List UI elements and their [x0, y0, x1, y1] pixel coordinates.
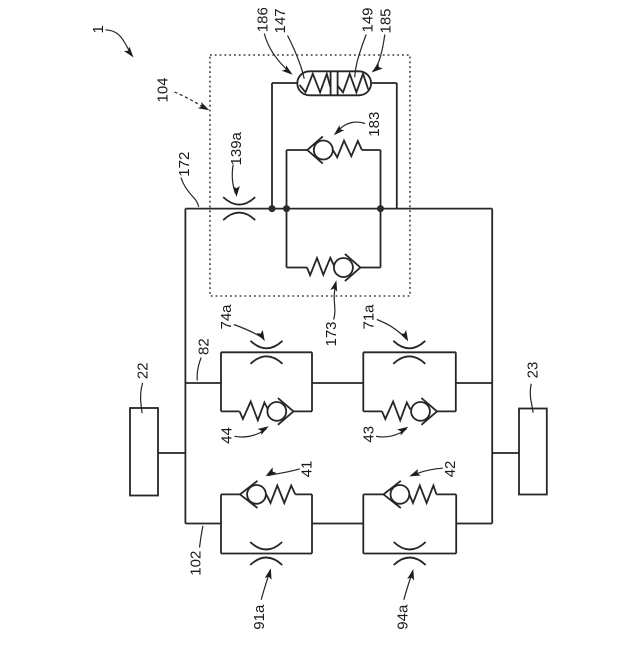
- leader for 42: [412, 468, 443, 475]
- restrictor 71a: [393, 341, 425, 364]
- accumulator piston divider: [331, 72, 338, 96]
- wire: main line 172: [185, 208, 492, 210]
- cylinder 22: [130, 408, 158, 496]
- junction node middle: [283, 205, 290, 212]
- leader for 183: [336, 122, 366, 133]
- leader for 43: [376, 429, 407, 437]
- arrowhead for 186: [282, 65, 295, 77]
- valve block box 42/94a: [363, 494, 456, 553]
- arrowhead for 1: [124, 47, 136, 60]
- check valve 183: [314, 141, 333, 160]
- junction node right: [377, 205, 384, 212]
- svg-text:22: 22: [134, 362, 151, 379]
- leader for 22: [141, 383, 143, 413]
- svg-text:42: 42: [442, 461, 459, 478]
- wire: accumulator branch right: [371, 83, 397, 209]
- wire: cylinder 23 connection: [492, 452, 519, 454]
- spring 149: [338, 74, 369, 93]
- wire: cylinder 22 connection: [158, 452, 185, 454]
- arrowheads: [124, 47, 421, 581]
- arrowhead for 139a: [233, 186, 240, 197]
- check valve 44: [267, 402, 286, 421]
- wire: row-2 middle: [312, 382, 364, 384]
- spring 147: [300, 74, 331, 93]
- arrowhead for 94a: [407, 568, 416, 580]
- arrowhead for 173: [330, 279, 339, 291]
- leader for 41: [268, 469, 300, 476]
- valve block box 71a/43: [363, 352, 456, 411]
- leader for 172: [181, 178, 199, 207]
- check valve 42: [391, 485, 410, 504]
- arrowhead for 44: [258, 423, 271, 435]
- wire: row-3 right: [456, 523, 492, 525]
- wire: check valve 173 branch: [287, 209, 381, 268]
- svg-text:74a: 74a: [218, 304, 235, 330]
- svg-text:94a: 94a: [395, 604, 412, 630]
- leader for 147: [288, 36, 305, 79]
- wire: right vertical line: [491, 209, 493, 524]
- leader for 102: [200, 526, 203, 548]
- leader for 23: [530, 384, 533, 413]
- svg-text:91a: 91a: [251, 604, 268, 630]
- svg-text:71a: 71a: [361, 304, 378, 330]
- wire: left vertical line: [184, 209, 186, 524]
- wire: row-2 right: [456, 382, 492, 384]
- svg-text:183: 183: [366, 112, 383, 137]
- leader for 71a: [377, 320, 407, 340]
- leader for 149: [355, 35, 367, 78]
- svg-text:104: 104: [155, 77, 172, 102]
- arrowhead for 91a: [265, 567, 274, 579]
- svg-text:147: 147: [272, 8, 289, 33]
- wire 102: row-3 left: [185, 523, 221, 525]
- valve block box 74a/44: [221, 352, 312, 411]
- arrowhead for 104: [198, 102, 211, 113]
- leader for 82: [197, 358, 201, 381]
- leader for 139a: [232, 165, 235, 194]
- cylinder 23: [519, 409, 547, 495]
- arrowhead for 185: [370, 63, 383, 75]
- leader for 94a: [404, 572, 413, 600]
- accumulator housing 186/185: [297, 71, 371, 95]
- wire: row-3 middle: [312, 523, 363, 525]
- svg-text:102: 102: [188, 551, 205, 576]
- leader for 186: [264, 34, 289, 73]
- restrictor 94a: [394, 542, 426, 565]
- svg-text:186: 186: [255, 7, 272, 32]
- arrowhead for 42: [408, 469, 421, 480]
- check valve 173: [334, 258, 353, 277]
- leader for 185: [373, 35, 385, 73]
- restrictor 91a: [250, 542, 282, 565]
- check valve 43: [411, 402, 430, 421]
- arrowhead for 71a: [400, 330, 411, 343]
- svg-text:149: 149: [360, 7, 377, 32]
- dashed enclosure 104: [210, 55, 410, 296]
- svg-text:41: 41: [298, 461, 315, 478]
- svg-text:44: 44: [219, 427, 236, 444]
- svg-text:82: 82: [195, 338, 212, 355]
- svg-text:1: 1: [90, 25, 107, 33]
- svg-text:173: 173: [323, 321, 340, 346]
- arrowhead for 43: [397, 424, 410, 436]
- arrowhead for 74a: [257, 330, 268, 343]
- reference labels: [90, 7, 542, 630]
- svg-text:23: 23: [524, 362, 541, 379]
- leader for 1: [106, 30, 132, 55]
- svg-text:139a: 139a: [228, 131, 245, 165]
- leader for 91a: [261, 571, 270, 600]
- valve block box 41/91a: [221, 494, 312, 553]
- arrowhead for 41: [264, 467, 277, 479]
- restrictor 74a: [251, 341, 283, 364]
- svg-text:185: 185: [377, 8, 394, 33]
- leader for 173: [334, 283, 336, 320]
- leader for 44: [235, 429, 267, 437]
- wire: accumulator branch left: [272, 83, 297, 209]
- restrictor 139a: [223, 197, 255, 220]
- check valve 41: [247, 485, 266, 504]
- svg-text:172: 172: [176, 152, 193, 177]
- wire 82: row-2 left: [185, 382, 221, 384]
- leader lines: [106, 30, 534, 600]
- leader for 104 (dashed): [175, 92, 207, 109]
- svg-text:43: 43: [360, 426, 377, 443]
- leader for 74a: [234, 325, 263, 339]
- arrowhead for 183: [331, 125, 344, 138]
- junction node left: [269, 205, 276, 212]
- wire: check valve 183 branch: [287, 150, 381, 209]
